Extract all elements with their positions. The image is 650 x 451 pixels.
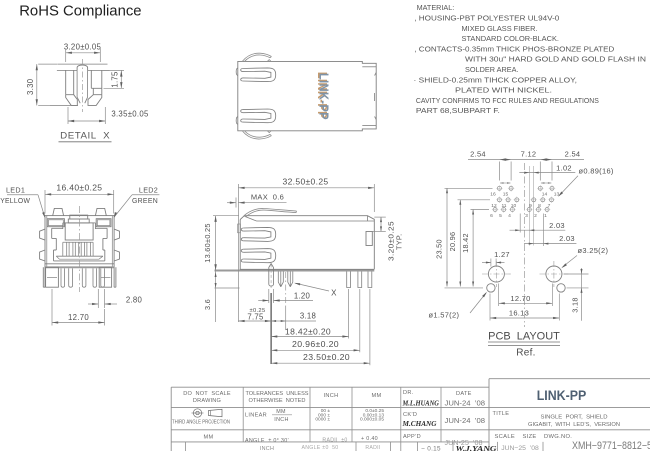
svg-text:20.96±0.20: 20.96±0.20 bbox=[292, 340, 339, 349]
svg-text:SOLDER AREA.: SOLDER AREA. bbox=[465, 65, 519, 74]
top view EMI finger 2 bbox=[243, 109, 276, 123]
side view peg center dashes bbox=[270, 265, 272, 289]
dim 23.50 pcb bbox=[446, 188, 448, 286]
dim 3.18 pcb bbox=[564, 273, 589, 275]
front view top posts bbox=[53, 208, 64, 215]
side view pin centerline bbox=[285, 272, 287, 306]
svg-text:3.30: 3.30 bbox=[26, 78, 35, 95]
svg-text:SCALE: SCALE bbox=[495, 434, 516, 440]
svg-text:JUN-24 ’08: JUN-24 ’08 bbox=[445, 398, 486, 407]
svg-text:LINK-PP: LINK-PP bbox=[537, 388, 587, 403]
svg-text:OTHERWISE NOTED: OTHERWISE NOTED bbox=[249, 398, 306, 404]
front view contact pins bbox=[61, 268, 65, 287]
cell third angle projection symbol bbox=[193, 409, 201, 417]
svg-text:− 0.15: − 0.15 bbox=[421, 445, 441, 451]
dim 1.02 bbox=[519, 172, 575, 174]
svg-text:PCB LAYOUT: PCB LAYOUT bbox=[488, 330, 560, 342]
svg-text:5: 5 bbox=[499, 213, 502, 219]
svg-text:X: X bbox=[331, 289, 337, 298]
title block outer lines bbox=[171, 386, 489, 388]
svg-text:SIZE: SIZE bbox=[523, 434, 537, 440]
dim 3.20±0.25 TYP bbox=[374, 216, 386, 218]
dim 16.13 bbox=[489, 294, 491, 321]
dim 3.18 side bbox=[285, 306, 287, 330]
svg-text:STANDARD COLOR-BLACK.: STANDARD COLOR-BLACK. bbox=[462, 34, 560, 43]
svg-text:2.03: 2.03 bbox=[559, 234, 575, 243]
svg-text:3.18: 3.18 bbox=[571, 297, 580, 312]
svg-text:1: 1 bbox=[544, 213, 547, 219]
dim 23.50±0.20 bbox=[271, 362, 370, 364]
svg-text:3.35±0.05: 3.35±0.05 bbox=[111, 110, 149, 119]
front view bottom shield edge bbox=[45, 266, 114, 268]
svg-text:CAVITY CONFIRMS TO FCC RULES A: CAVITY CONFIRMS TO FCC RULES AND REGULAT… bbox=[416, 96, 599, 105]
svg-text:14: 14 bbox=[542, 191, 548, 197]
dim 12.70 front bbox=[51, 289, 53, 326]
svg-text:16.13: 16.13 bbox=[509, 309, 529, 318]
pcb 1.02 extension lines bbox=[528, 166, 530, 246]
svg-text:DETAIL X: DETAIL X bbox=[60, 130, 110, 141]
svg-text:THIRD ANGLE PROJECTION: THIRD ANGLE PROJECTION bbox=[172, 420, 230, 426]
svg-text:W.J.YANG: W.J.YANG bbox=[456, 444, 498, 451]
svg-text:1.27: 1.27 bbox=[494, 250, 510, 259]
dim 3.30 bbox=[38, 63, 57, 65]
svg-text:MM: MM bbox=[204, 434, 214, 440]
svg-text:ANGLE ±0 50: ANGLE ±0 50 bbox=[301, 445, 338, 451]
detail X bottom line bbox=[50, 104, 78, 106]
svg-text:32.50±0.25: 32.50±0.25 bbox=[283, 177, 329, 186]
front view left shield leg bbox=[46, 267, 59, 287]
svg-text:7.12: 7.12 bbox=[521, 149, 537, 158]
svg-text:MAX 0.6: MAX 0.6 bbox=[251, 193, 284, 202]
svg-text:CK’D: CK’D bbox=[403, 412, 417, 418]
front view side flaps bbox=[43, 267, 45, 287]
dim 18.42±0.20 bbox=[271, 336, 349, 338]
svg-text:GREEN: GREEN bbox=[132, 196, 158, 205]
svg-text:M.L.HUANG: M.L.HUANG bbox=[402, 399, 440, 407]
title block vertical lines bbox=[170, 387, 172, 451]
dim 12.70 pcb bbox=[498, 284, 500, 307]
svg-text:ANGLE ± 0° 30’: ANGLE ± 0° 30’ bbox=[245, 438, 289, 444]
svg-text:18.42±0.20: 18.42±0.20 bbox=[285, 327, 331, 336]
svg-text:RoHS Compliance: RoHS Compliance bbox=[19, 3, 141, 20]
front view contact comb bbox=[62, 242, 64, 256]
side view left pin-bottom extension bbox=[215, 287, 240, 289]
front view latch top tab bbox=[70, 215, 88, 219]
svg-text:DR.: DR. bbox=[403, 390, 414, 396]
side view front face tab bbox=[238, 224, 241, 233]
side view front pins bbox=[278, 272, 283, 287]
svg-text:XMH−9771−8812−5: XMH−9771−8812−5 bbox=[572, 440, 650, 451]
top view body outline bbox=[238, 61, 376, 130]
svg-text:2.03: 2.03 bbox=[549, 221, 565, 230]
svg-text:PART 68,SUBPART F.: PART 68,SUBPART F. bbox=[416, 106, 500, 115]
svg-text:15: 15 bbox=[503, 191, 509, 197]
svg-text:1.20: 1.20 bbox=[294, 291, 311, 300]
side view peg center extension bbox=[270, 293, 272, 364]
dim 3.6 bbox=[215, 271, 217, 323]
svg-text:JUN-24 ’08: JUN-24 ’08 bbox=[445, 416, 486, 425]
pcb small hole left ø1.57 bbox=[487, 284, 495, 292]
svg-text:ø0.89(16): ø0.89(16) bbox=[579, 166, 614, 175]
svg-text:GIGABIT, WITH LED’S, VERSIO: GIGABIT, WITH LED’S, VERSION bbox=[528, 422, 620, 428]
svg-text:· SHIELD-0.25mm TIHCK COPPER A: · SHIELD-0.25mm TIHCK COPPER ALLOY, bbox=[414, 75, 578, 84]
dim 2.03 first bbox=[519, 214, 521, 233]
svg-text:12.70: 12.70 bbox=[68, 313, 89, 322]
svg-text:INCH: INCH bbox=[274, 417, 288, 423]
svg-text:20.96: 20.96 bbox=[448, 232, 457, 252]
svg-text:13.60±0.25: 13.60±0.25 bbox=[203, 223, 212, 262]
dim 13.60±0.25 bbox=[213, 215, 239, 217]
svg-text:DRAWING: DRAWING bbox=[193, 398, 221, 404]
svg-text:LINK-PP: LINK-PP bbox=[316, 73, 331, 120]
pcb row extension lines left bbox=[445, 187, 493, 189]
svg-text:2.54: 2.54 bbox=[565, 149, 581, 158]
detail X left boot chamfer bbox=[66, 95, 78, 106]
pcb small hole right ø1.57 bbox=[557, 284, 565, 292]
front view side EMI tabs left bbox=[40, 229, 45, 240]
svg-text:YELLOW: YELLOW bbox=[0, 196, 30, 205]
detail X top surface lines bbox=[57, 63, 107, 65]
svg-text:0000 ±: 0000 ± bbox=[315, 417, 330, 423]
svg-text:MATERIAL:: MATERIAL: bbox=[417, 3, 455, 12]
svg-text:3.18: 3.18 bbox=[300, 312, 316, 321]
svg-text:16: 16 bbox=[490, 191, 496, 197]
svg-text:3.20±0.05: 3.20±0.05 bbox=[64, 42, 102, 51]
top view edge notch marks bbox=[267, 60, 271, 62]
side view EMI finger upper bbox=[243, 227, 276, 241]
svg-text:RADII ±0: RADII ±0 bbox=[322, 438, 347, 444]
top view latch arc lower bbox=[243, 131, 272, 139]
dim 2.03 second bbox=[542, 214, 544, 247]
svg-text:MM: MM bbox=[276, 409, 286, 415]
svg-text:DO NOT SCALE: DO NOT SCALE bbox=[183, 391, 231, 397]
svg-text:PLATED WITH NICKEL.: PLATED WITH NICKEL. bbox=[455, 86, 552, 95]
dim 2.54 / 7.12 / 2.54 top bbox=[468, 159, 584, 161]
svg-text:ø1.57(2): ø1.57(2) bbox=[429, 311, 460, 320]
dim 1.75 bbox=[103, 69, 124, 71]
pcb centerline vertical bbox=[524, 163, 526, 327]
dim 1.20 peg width bbox=[268, 289, 270, 303]
dim 3.35±0.05 bbox=[67, 107, 69, 124]
svg-text:+ 0.40: + 0.40 bbox=[361, 436, 378, 442]
side view EMI finger lower bbox=[243, 249, 276, 263]
svg-text:16.40±0.25: 16.40±0.25 bbox=[56, 183, 102, 192]
svg-text:M.CHANG: M.CHANG bbox=[401, 420, 437, 428]
svg-text:23.50±0.20: 23.50±0.20 bbox=[303, 353, 350, 362]
side view rear EMI tab bbox=[366, 232, 372, 246]
dim 18.42 pcb bbox=[472, 210, 474, 287]
svg-text:DATE: DATE bbox=[456, 391, 472, 397]
side view rear pins bbox=[347, 272, 351, 288]
svg-text:2: 2 bbox=[534, 213, 537, 219]
svg-text:6: 6 bbox=[490, 213, 493, 219]
svg-text:DWG.NO.: DWG.NO. bbox=[544, 434, 572, 440]
svg-text:18.42: 18.42 bbox=[461, 233, 470, 253]
svg-text:0.000±0.05: 0.000±0.05 bbox=[360, 417, 384, 423]
detail X right wall bbox=[91, 70, 102, 94]
svg-text:LINEAR: LINEAR bbox=[245, 413, 267, 419]
side view plastic peg bbox=[269, 264, 274, 286]
top view rear step lines bbox=[362, 66, 376, 68]
front view shoulders bbox=[52, 228, 63, 250]
front view body outline bbox=[45, 216, 114, 268]
svg-text:ø3.25(2): ø3.25(2) bbox=[578, 246, 609, 255]
dim 20.96±0.20 bbox=[271, 349, 360, 351]
top view latch arc upper bbox=[243, 53, 272, 61]
front view plug cavity upper bbox=[65, 223, 93, 240]
svg-text:JUN−25 ’08: JUN−25 ’08 bbox=[501, 445, 539, 451]
svg-text:TYP.: TYP. bbox=[395, 234, 404, 250]
svg-text:INCH: INCH bbox=[260, 446, 274, 451]
side view body outline bbox=[240, 216, 374, 270]
top view left edge bumps bbox=[236, 68, 238, 76]
detail X left wall bbox=[66, 70, 74, 94]
svg-text:3: 3 bbox=[525, 213, 528, 219]
dim 20.96 pcb bbox=[459, 200, 461, 287]
detail X contact dome bbox=[77, 65, 88, 70]
svg-text:MIXED GLASS FIBER.: MIXED GLASS FIBER. bbox=[462, 24, 538, 33]
svg-text:SINGLE PORT, SHIELD: SINGLE PORT, SHIELD bbox=[541, 414, 608, 420]
svg-text:12.70: 12.70 bbox=[510, 294, 530, 303]
svg-text:TOLERANCES UNLESS: TOLERANCES UNLESS bbox=[246, 391, 309, 397]
svg-text:3.6: 3.6 bbox=[203, 299, 212, 310]
side view bottom shield edge bbox=[215, 270, 375, 272]
svg-text:LED1: LED1 bbox=[6, 185, 25, 194]
detail X centerline bbox=[81, 59, 83, 112]
front view right shield leg bbox=[99, 267, 111, 287]
svg-text:MM: MM bbox=[372, 393, 382, 399]
svg-text:RADII: RADII bbox=[365, 445, 380, 451]
front view side EMI tabs right bbox=[114, 229, 119, 240]
svg-text:1.02: 1.02 bbox=[556, 164, 572, 173]
front view LED1 window bbox=[47, 219, 64, 227]
svg-text:LED2: LED2 bbox=[139, 185, 158, 194]
bottom strip cut row bbox=[185, 442, 187, 451]
svg-text:2.80: 2.80 bbox=[126, 295, 143, 304]
svg-text:INCH: INCH bbox=[324, 393, 339, 399]
svg-text:TITLE: TITLE bbox=[493, 411, 510, 417]
svg-text:4: 4 bbox=[508, 213, 511, 219]
top view EMI finger 1 bbox=[243, 68, 276, 82]
svg-text:7.75: 7.75 bbox=[247, 312, 264, 321]
pcb mounting hole right ø3.25 bbox=[546, 266, 562, 282]
svg-text:23.50: 23.50 bbox=[435, 239, 444, 259]
dim 2.80 bbox=[97, 289, 99, 308]
svg-text:APP’D: APP’D bbox=[403, 434, 421, 440]
pcb mounting hole left ø3.25 bbox=[488, 266, 504, 282]
pcb layout pin holes bbox=[497, 186, 501, 190]
detail X right boot chamfer bbox=[88, 95, 102, 106]
pcb bracket arrow marks bbox=[500, 182, 504, 184]
front view centerline bbox=[79, 206, 81, 292]
pcb small hole extension line bbox=[445, 287, 484, 289]
front view LED2 window bbox=[96, 219, 111, 227]
svg-text:Ref.: Ref. bbox=[516, 348, 536, 359]
front view lower cavity bbox=[54, 250, 105, 261]
side view rear pin extensions bbox=[348, 289, 350, 339]
svg-text:2.54: 2.54 bbox=[470, 149, 486, 158]
side view latch spring curve bbox=[244, 208, 297, 215]
svg-text:, CONTACTS-0.35mm THICK PHOS-B: , CONTACTS-0.35mm THICK PHOS-BRONZE PLAT… bbox=[414, 44, 614, 53]
svg-text:WITH 30u" HARD GOLD AND GOLD F: WITH 30u" HARD GOLD AND GOLD FLASH IN bbox=[465, 55, 646, 64]
svg-text:1.75: 1.75 bbox=[110, 71, 119, 88]
svg-text:13: 13 bbox=[554, 191, 560, 197]
svg-text:, HOUSING-PBT POLYESTER UL94V-: , HOUSING-PBT POLYESTER UL94V-0 bbox=[414, 14, 559, 23]
